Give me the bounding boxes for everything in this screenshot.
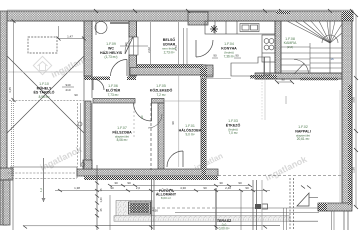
svg-text:1.F.09: 1.F.09 bbox=[106, 42, 116, 46]
svg-text:2,02: 2,02 bbox=[147, 47, 151, 53]
svg-text:90: 90 bbox=[245, 186, 249, 190]
svg-text:ELŐTÉR: ELŐTÉR bbox=[106, 88, 121, 93]
svg-text:2,73 m²: 2,73 m² bbox=[164, 51, 175, 55]
svg-text:90: 90 bbox=[238, 181, 242, 185]
svg-text:7,36 m²: 7,36 m² bbox=[224, 55, 235, 59]
svg-text:0,00 m²: 0,00 m² bbox=[219, 227, 230, 231]
svg-text:90: 90 bbox=[110, 186, 114, 190]
svg-text:7,73 m²: 7,73 m² bbox=[108, 93, 119, 97]
svg-text:1,47: 1,47 bbox=[67, 35, 73, 39]
svg-text:940: 940 bbox=[65, 83, 70, 87]
svg-text:1.F.07: 1.F.07 bbox=[117, 126, 127, 130]
svg-text:90: 90 bbox=[127, 181, 131, 185]
svg-text:1,38: 1,38 bbox=[74, 186, 80, 190]
svg-text:90: 90 bbox=[124, 42, 128, 46]
svg-text:20,61 m²: 20,61 m² bbox=[297, 137, 310, 141]
svg-text:1.F.01: 1.F.01 bbox=[185, 124, 195, 128]
svg-text:210: 210 bbox=[65, 88, 70, 92]
svg-text:1,40: 1,40 bbox=[99, 197, 103, 203]
svg-text:(1,73 m²): (1,73 m²) bbox=[105, 55, 118, 59]
svg-text:2,73: 2,73 bbox=[174, 45, 178, 51]
svg-text:BELSŐ: BELSŐ bbox=[163, 37, 176, 42]
svg-text:90: 90 bbox=[281, 78, 285, 82]
svg-text:8,00 m²: 8,00 m² bbox=[161, 196, 171, 200]
svg-text:8,06 m²: 8,06 m² bbox=[117, 138, 128, 142]
svg-text:30: 30 bbox=[219, 181, 223, 185]
svg-text:30: 30 bbox=[114, 181, 118, 185]
svg-text:90: 90 bbox=[213, 54, 217, 58]
svg-text:16: 16 bbox=[330, 57, 334, 61]
svg-text:4,30: 4,30 bbox=[180, 186, 186, 190]
svg-text:1.F.02: 1.F.02 bbox=[298, 125, 308, 129]
svg-text:90: 90 bbox=[203, 186, 207, 190]
svg-text:1.F.05: 1.F.05 bbox=[156, 84, 166, 88]
svg-text:7,0 m²: 7,0 m² bbox=[228, 131, 237, 135]
svg-text:1.F.03: 1.F.03 bbox=[228, 119, 238, 123]
svg-text:ÉS TÁROLÓ: ÉS TÁROLÓ bbox=[34, 90, 55, 95]
svg-text:1.F.06: 1.F.06 bbox=[108, 84, 118, 88]
svg-text:1,50: 1,50 bbox=[352, 167, 356, 173]
svg-text:90: 90 bbox=[74, 93, 78, 97]
svg-text:1.F.10: 1.F.10 bbox=[39, 82, 49, 86]
svg-text:8,95 m²: 8,95 m² bbox=[39, 95, 50, 99]
svg-text:1.F.04: 1.F.04 bbox=[224, 42, 234, 46]
svg-text:90: 90 bbox=[171, 121, 175, 125]
svg-text:1,2: 1,2 bbox=[39, 188, 43, 193]
svg-text:9,0 m²: 9,0 m² bbox=[185, 133, 194, 137]
svg-text:7,2 m²: 7,2 m² bbox=[156, 93, 165, 97]
svg-text:4,45: 4,45 bbox=[8, 87, 12, 93]
svg-text:KÖZLEKEDŐ: KÖZLEKEDŐ bbox=[150, 88, 173, 93]
svg-text:4,50: 4,50 bbox=[152, 209, 158, 213]
svg-text:90: 90 bbox=[235, 54, 239, 58]
svg-text:WC: WC bbox=[108, 47, 114, 51]
svg-text:2,0: 2,0 bbox=[136, 186, 141, 190]
svg-text:3,05: 3,05 bbox=[352, 97, 356, 103]
svg-text:2,40: 2,40 bbox=[225, 186, 231, 190]
svg-text:(2,2): (2,2) bbox=[287, 45, 293, 49]
